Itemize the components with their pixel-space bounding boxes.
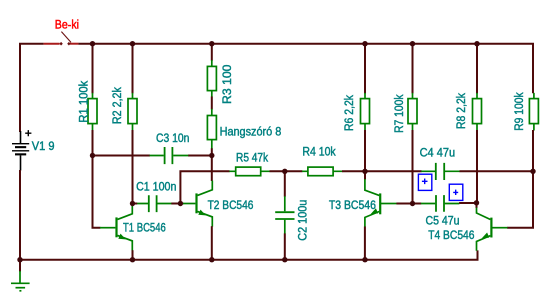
wire C4 to T4 base node [460,170,534,172]
wire T2 emitter to bottom rail [211,226,213,260]
resistor R8 leads [476,93,478,131]
junction bottom rail C2 [282,257,287,262]
junction bottom rail T1 emitter [130,257,135,262]
capacitor C2 plates [275,212,294,219]
wire T1 collector to C1 node [132,204,134,206]
wire R8 branch upper [476,44,478,94]
wire R6 branch upper [364,44,366,94]
wire T3 base to R7 node [396,203,412,205]
wire R5 to R4 [270,170,303,172]
wire T3 collector node to C4 [365,170,422,172]
junction top rail at R8 [474,41,479,46]
wire C1 right to T2 base node [171,203,180,205]
junction R9 C4 T4 base node [530,169,535,174]
resistor R8 body [473,99,482,124]
resistor R7 leads [412,93,414,131]
svg-text:C4 47u: C4 47u [420,145,456,159]
wire R9 bottom to T4 base corner [507,130,533,228]
junction bottom rail T2 emitter [209,257,214,262]
switch S1 lever [61,32,71,43]
switch S1 Be-ki lead right [70,43,78,45]
wire C5 right to R8 node [459,202,476,204]
wire bottom ground rail [19,250,478,259]
wire R7 bottom to C5 node [412,130,414,204]
transistor T2 [183,181,212,227]
junction top rail at R1 [90,41,95,46]
switch S1 contact right [67,42,70,46]
battery V1 plus sign [25,130,31,136]
transistor T3 emitter arrow [371,208,379,214]
junction bottom rail battery [17,257,22,262]
junction C3 right speaker node [209,153,214,158]
wire R7 branch upper [412,44,414,94]
junction top rail at R6 [362,41,367,46]
capacitor C5 plus [453,190,458,195]
wire R8 bottom to C5 node [476,130,478,203]
capacitor C4 leads [421,170,460,172]
capacitor C3 plates [165,147,173,164]
svg-text:R2 2,2k: R2 2,2k [110,86,124,124]
svg-text:T4 BC546: T4 BC546 [428,228,474,242]
speaker Hangszoro leads [211,109,213,149]
capacitor C5 polarity box [449,184,463,200]
switch S1 contact left [59,42,62,46]
transistor T1 [100,205,132,251]
resistor R1 body [88,99,97,124]
wire R3 branch upper [211,44,213,61]
ground symbol [11,271,30,291]
wire R3 to speaker [211,97,213,110]
wire battery to bottom rail [19,170,21,260]
wire R2 branch upper [132,44,134,94]
resistor R1 leads [92,93,94,131]
wire T2 collector riser [211,156,213,182]
capacitor C2 leads [284,196,286,234]
svg-text:T2 BC546: T2 BC546 [208,198,254,212]
svg-text:R4 10k: R4 10k [302,145,336,159]
transistor T4 emitter arrow [482,233,490,239]
battery V1 lead bottom [20,155,22,170]
wire T4 collector stub [476,203,478,208]
wire T3 collector riser [364,171,366,179]
junction R8 C5 T4 collector node [474,200,479,205]
wire T1 emitter to bottom rail [132,250,134,260]
resistor R3 body [207,66,216,90]
wire R2 bottom to C1 node [132,130,134,204]
battery V1 lead top [20,131,22,144]
resistor R6 leads [364,93,366,131]
capacitor C4 polarity box [418,174,431,190]
resistor R3 leads [211,60,213,97]
svg-text:R8 2,2k: R8 2,2k [454,92,468,129]
junction T2 base node [178,201,183,206]
resistor R6 body [361,99,370,124]
wire T2 base node riser and R5 feed [180,171,229,203]
svg-text:C5 47u: C5 47u [426,214,460,228]
svg-text:C1 100n: C1 100n [136,179,176,193]
wire C2 to bottom rail [284,233,286,259]
transistor T1 base lead wire [180,203,183,205]
battery V1 plates [12,143,29,155]
resistor R4 body [308,167,333,176]
resistor R7 body [408,99,417,124]
switch S1 Be-ki lead left [44,43,60,45]
capacitor C1 plates [149,195,157,212]
svg-text:R1 100k: R1 100k [76,80,90,123]
junction top rail at R7 [410,41,415,46]
resistor R9 body [529,99,538,124]
wire C2 branch [284,171,286,196]
wire top rail right of switch [78,44,533,93]
junction bottom rail T3 emitter [362,257,367,262]
wire speaker to C3 node [211,148,213,155]
wire R4 to R6 node [342,170,365,172]
wire C1 left stub [133,203,138,205]
svg-text:R6 2,2k: R6 2,2k [342,94,356,131]
resistor R9 leads [533,93,535,131]
svg-text:R3 100: R3 100 [220,64,234,104]
resistor R4 leads [302,170,342,172]
wire top supply rail [20,44,44,132]
wire R1 branch upper [92,44,94,94]
resistor R5 leads [229,170,269,172]
svg-text:R5 47k: R5 47k [236,150,269,164]
svg-text:V1 9: V1 9 [32,139,55,153]
capacitor C4 plus [422,179,428,185]
junction top rail at R3 [209,41,214,46]
wire C5 left stub [413,203,422,205]
capacitor C5 plates [436,195,444,212]
wire R1 bottom to T1 base [93,130,101,228]
capacitor C1 leads [137,203,172,205]
junction R7 T3 base node [410,201,415,206]
wire C3 node horizontal [93,155,212,157]
resistor R2 leads [132,93,134,131]
junction C1 left T1 collector node [130,201,135,206]
resistor R5 body [236,167,261,176]
svg-text:C3 10n: C3 10n [156,131,189,145]
capacitor C3 leads [150,155,189,157]
resistor R2 body [128,99,137,124]
svg-text:T1 BC546: T1 BC546 [123,221,166,235]
junction C3 left node [90,153,95,158]
svg-text:Hangszóró 8: Hangszóró 8 [220,124,282,138]
svg-text:Be-ki: Be-ki [55,18,79,32]
svg-text:C2 100u: C2 100u [296,200,310,241]
transistor T1 emitter arrow [118,234,126,240]
junction C2 top node [282,169,287,174]
wire ground stub [19,260,21,272]
transistor T4 [477,208,508,251]
capacitor C4 plates [436,163,444,180]
svg-text:R9 100k: R9 100k [512,92,526,131]
speaker Hangszoro body [207,116,216,140]
transistor T2 emitter arrow [198,210,206,216]
wire T3 emitter to bottom rail [364,227,366,260]
wire R6 bottom to R4 node [364,130,366,171]
svg-text:T3 BC546: T3 BC546 [329,198,376,212]
capacitor C5 leads [421,203,460,205]
svg-text:R7 100k: R7 100k [392,94,406,133]
junction R6 R4 T3 collector node [362,169,367,174]
junction top rail at R2 [130,41,135,46]
transistor T3 [365,179,397,227]
